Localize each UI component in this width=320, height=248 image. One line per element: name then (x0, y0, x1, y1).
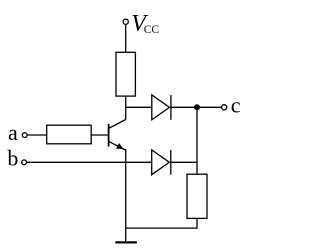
wire a to R2 (27, 134, 47, 136)
diode D1 (152, 95, 171, 120)
output terminal c (222, 105, 227, 110)
wire R1 bottom to collector (125, 96, 127, 120)
wire D1 to output (171, 106, 222, 108)
wire Vcc to R1 (125, 24, 127, 52)
input terminal b (22, 160, 27, 165)
input terminal a (22, 133, 27, 138)
wire b to diode D2 (27, 161, 153, 163)
wire R3 bottom to ground rail (126, 218, 197, 228)
wire node down to R3 (196, 107, 198, 174)
svg-text:c: c (231, 93, 241, 118)
Vcc terminal (123, 19, 128, 24)
resistor R1 (116, 52, 135, 96)
wire D2 to R3 branch (171, 161, 197, 163)
transistor Q1 (109, 120, 126, 151)
svg-text:b: b (7, 146, 18, 171)
resistor R2 (47, 125, 91, 144)
node (junction dot) (194, 104, 200, 110)
wire node to diode D1 (126, 106, 153, 108)
wire R2 to base (91, 134, 108, 136)
resistor R3 (187, 174, 207, 218)
ground (115, 241, 137, 243)
svg-text:a: a (8, 120, 18, 145)
svg-text:CC: CC (144, 23, 160, 36)
wire emitter to ground (125, 149, 127, 242)
diode D2 (152, 150, 171, 175)
